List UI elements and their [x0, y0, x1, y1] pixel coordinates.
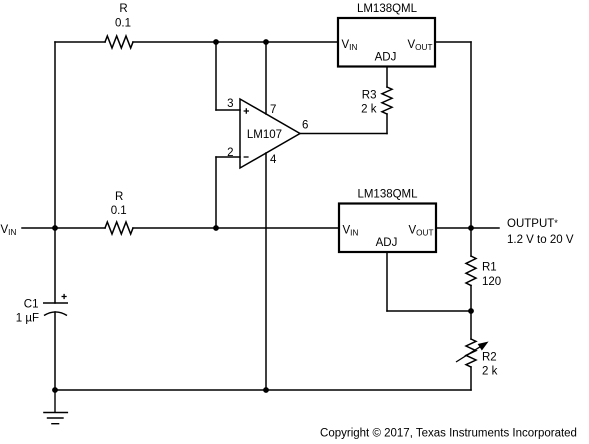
- junction dot ground rail left: [52, 387, 58, 393]
- junction dot VIN rail left: [52, 225, 58, 231]
- wire VIN input lead: [22, 227, 105, 229]
- wire pin7 vertical from top rail: [265, 42, 267, 114]
- svg-text:2 k: 2 k: [361, 104, 377, 116]
- wire pin2 stub from op-amp: [216, 156, 240, 158]
- junction dot output node: [468, 225, 474, 231]
- wire R2 top lead: [470, 311, 472, 339]
- svg-text:LM138QML: LM138QML: [357, 189, 418, 201]
- ground symbol: [43, 390, 68, 424]
- wire R1 top lead: [470, 228, 472, 256]
- wire ground rail: [55, 389, 471, 391]
- wire U2 VOUT to right: [435, 41, 471, 43]
- svg-text:OUTPUT*: OUTPUT*: [507, 218, 558, 230]
- svg-text:7: 7: [270, 104, 276, 116]
- svg-text:R: R: [115, 191, 123, 203]
- wire right vertical from U2 VOUT down to output node: [470, 42, 472, 228]
- wire op-amp output pin6: [300, 133, 387, 135]
- wire U3 VOUT to output node: [436, 227, 471, 229]
- svg-text:R1: R1: [482, 262, 497, 274]
- svg-text:1.2 V to 20 V: 1.2 V to 20 V: [507, 234, 574, 246]
- regulator U3 LM138QML box (bottom): [339, 204, 436, 253]
- svg-text:4: 4: [270, 154, 277, 166]
- wire pin3 vertical from top rail: [215, 42, 217, 110]
- wire left vertical from top rail to VIN rail: [54, 42, 56, 228]
- capacitor C1 plates: [43, 303, 68, 316]
- svg-text:VIN: VIN: [342, 39, 358, 52]
- svg-text:LM138QML: LM138QML: [357, 3, 418, 15]
- svg-text:0.1: 0.1: [115, 18, 131, 30]
- svg-text:Copyright © 2017, Texas Instru: Copyright © 2017, Texas Instruments Inco…: [320, 428, 577, 440]
- regulator U2 LM138QML box (top): [338, 18, 435, 67]
- wire pin2 vertical to VIN rail: [215, 157, 217, 228]
- R2 wiper arrow: [456, 343, 487, 363]
- junction dot top rail pin3: [213, 39, 219, 45]
- wire OUTPUT lead: [471, 227, 499, 229]
- wire C1 bottom lead: [54, 312, 56, 390]
- resistor R3 zigzag: [382, 87, 392, 114]
- resistor R2 zigzag (variable): [466, 339, 476, 367]
- svg-text:120: 120: [482, 276, 501, 288]
- wire top rail right segment to U2 VIN: [133, 41, 338, 43]
- op-amp U1 LM107 triangle: [240, 99, 300, 168]
- svg-text:2: 2: [227, 147, 233, 159]
- svg-text:6: 6: [302, 120, 308, 132]
- wire R1 bottom lead: [470, 286, 472, 312]
- op-amp minus input marking: [244, 156, 249, 158]
- resistor R1 zigzag: [466, 256, 476, 286]
- wire top rail left segment: [55, 41, 105, 43]
- junction dot R1/R2/ADJ node: [468, 308, 474, 314]
- wire pin4 vertical to ground rail: [265, 153, 267, 390]
- resistor R (top, 0.1) zigzag: [105, 36, 133, 48]
- wire pin3 stub to op-amp: [216, 109, 240, 111]
- svg-text:ADJ: ADJ: [375, 52, 397, 64]
- svg-text:1 µF: 1 µF: [16, 313, 39, 325]
- svg-text:0.1: 0.1: [111, 205, 127, 217]
- svg-text:VOUT: VOUT: [408, 39, 433, 52]
- junction dot top rail pin7: [263, 39, 269, 45]
- svg-text:R3: R3: [362, 90, 377, 102]
- svg-text:VIN: VIN: [343, 225, 359, 238]
- svg-text:R: R: [119, 3, 127, 15]
- C1 polarity plus sign: [62, 294, 67, 299]
- wire C1 top lead: [54, 228, 56, 303]
- svg-text:3: 3: [227, 98, 233, 110]
- junction dot VIN rail pin2: [213, 225, 219, 231]
- svg-text:LM107: LM107: [247, 129, 282, 141]
- wire U3 ADJ vertical: [386, 252, 388, 311]
- svg-text:2 k: 2 k: [482, 366, 498, 378]
- op-amp plus input marking: [244, 108, 249, 113]
- svg-text:VOUT: VOUT: [409, 225, 434, 238]
- wire R3 bottom lead: [386, 114, 388, 134]
- svg-text:VIN: VIN: [1, 224, 17, 237]
- wire R2 bottom lead: [470, 367, 472, 390]
- svg-text:R2: R2: [482, 352, 497, 364]
- svg-text:C1: C1: [24, 299, 39, 311]
- wire VIN rail to U3 VIN: [133, 227, 339, 229]
- wire U3 ADJ horizontal to node: [387, 310, 471, 312]
- svg-text:ADJ: ADJ: [376, 237, 398, 249]
- wire R3 top lead to U2 ADJ: [386, 67, 388, 88]
- resistor R (bottom, 0.1) zigzag: [105, 222, 133, 234]
- junction dot ground rail pin4: [263, 387, 269, 393]
